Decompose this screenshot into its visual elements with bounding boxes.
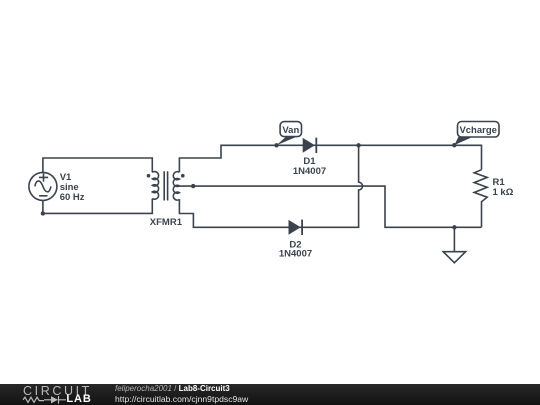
svg-text:60 Hz: 60 Hz [60, 192, 85, 203]
svg-text:Van: Van [282, 125, 299, 136]
svg-text:1N4007: 1N4007 [293, 166, 326, 177]
svg-text:XFMR1: XFMR1 [150, 217, 183, 228]
svg-text:Vcharge: Vcharge [459, 125, 497, 136]
svg-text:1 kΩ: 1 kΩ [493, 187, 514, 198]
svg-text:1N4007: 1N4007 [279, 248, 312, 259]
